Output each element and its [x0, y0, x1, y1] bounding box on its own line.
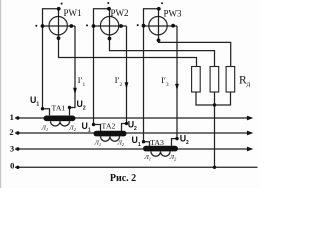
node PW2 left	[92, 24, 96, 28]
svg-text:2: 2	[9, 127, 13, 137]
wire PW1 voltage top elbow + left vertical to TA1	[43, 9, 59, 109]
primary bar TA3	[143, 146, 178, 152]
node PW2 right	[119, 24, 123, 28]
node PW1 bottom	[57, 36, 61, 40]
node bus1 left	[16, 116, 19, 119]
bus line 3	[15, 148, 248, 150]
current arrow I'2	[125, 82, 129, 89]
wire R2 bottom stub	[214, 92, 216, 105]
wire R bottoms common	[196, 92, 231, 105]
wire PW3 cross vertical	[158, 9, 160, 41]
winding TA3 secondary arcs	[151, 152, 170, 157]
bus line 2	[15, 132, 248, 134]
current arrow I'3	[175, 84, 179, 91]
node TA2 I2	[125, 122, 128, 125]
node PW3 right	[171, 24, 175, 28]
node PW1 top	[57, 7, 61, 11]
polarity star PW3 top	[161, 2, 163, 4]
polarity star PW2 top	[107, 2, 109, 4]
arrowhead bus 1	[247, 116, 253, 121]
arrowhead bus 3	[247, 147, 253, 152]
polarity star PW3 left	[137, 24, 139, 26]
wire TA1 I1 jog	[43, 109, 50, 116]
svg-text:PW3: PW3	[164, 9, 183, 19]
primary bar TA1	[44, 116, 76, 122]
node PW2 bottom	[108, 37, 112, 41]
winding TA2 secondary arcs	[101, 137, 120, 142]
wire PW1 cross horizontal	[43, 25, 76, 27]
node PW2 top	[107, 7, 111, 11]
current arrow I'1	[73, 88, 77, 95]
node bus2 left	[16, 131, 19, 134]
svg-text:Рис. 2: Рис. 2	[110, 173, 136, 184]
node R common junction	[213, 103, 216, 106]
svg-text:1: 1	[10, 112, 14, 122]
node TA3 I1	[142, 140, 145, 143]
wire PW2 cross horizontal	[94, 25, 127, 27]
svg-text:PW2: PW2	[111, 8, 129, 18]
op PW1 circle	[49, 17, 67, 35]
wire PW2 cross vertical	[109, 9, 111, 39]
winding TA1 secondary arcs	[51, 121, 70, 126]
op PW3 circle	[149, 17, 167, 35]
wire PW1 cross vertical	[58, 9, 60, 38]
primary bar TA2	[94, 131, 127, 137]
node TA1 I2	[68, 106, 71, 109]
node PW1 right	[69, 24, 73, 28]
svg-text:ТА3: ТА3	[150, 138, 164, 147]
svg-text:PW1: PW1	[64, 8, 82, 18]
node TA3 I2	[175, 137, 178, 140]
svg-text:ТА2: ТА2	[102, 122, 116, 131]
resistor R3	[226, 67, 235, 93]
resistor R1	[192, 67, 201, 93]
bus line 1	[15, 117, 248, 119]
svg-text:0: 0	[10, 161, 14, 171]
wire TA3 I1 jog	[144, 142, 150, 146]
polarity star PW2 left	[86, 24, 88, 26]
bus line 0	[15, 166, 258, 168]
polarity star PW1 left	[35, 25, 37, 27]
svg-text:3: 3	[10, 144, 14, 154]
node PW3 left	[142, 24, 146, 28]
wire PW1 right corner down to TA1 I2	[70, 26, 76, 115]
scan edge artifact left	[0, 0, 2, 188]
node PW3 top	[157, 7, 161, 11]
node R drop on line 0	[213, 166, 216, 169]
wire PW3 voltage top elbow + left vertical to TA3	[144, 9, 159, 142]
node TA2 I1	[92, 123, 95, 126]
wire PW3 right corner down to TA3 I2	[172, 26, 178, 146]
op PW2 circle	[100, 17, 118, 35]
wire PW2 right corner down to TA2 I2	[122, 26, 127, 131]
wire PW3 cross horizontal	[144, 25, 178, 27]
wire PW2 voltage top elbow + left vertical to TA2	[94, 9, 110, 125]
node bus0 left	[16, 166, 19, 169]
arrowhead bus 2	[247, 131, 253, 136]
node PW3 bottom	[157, 38, 161, 42]
polarity star PW1 top	[61, 3, 63, 5]
wire PW3 bottom to R3	[159, 40, 231, 66]
node bus3 left	[16, 147, 19, 150]
wire TA2 I1 jog	[94, 125, 101, 131]
wire PW2 bottom to R2	[110, 39, 215, 67]
svg-text:ТА1: ТА1	[52, 103, 66, 112]
node PW1 left	[41, 24, 45, 28]
node TA1 I1	[41, 107, 44, 110]
wire R common drop to line 0	[214, 105, 216, 167]
wire PW1 bottom to R1	[59, 38, 197, 66]
resistor R2	[210, 67, 219, 93]
